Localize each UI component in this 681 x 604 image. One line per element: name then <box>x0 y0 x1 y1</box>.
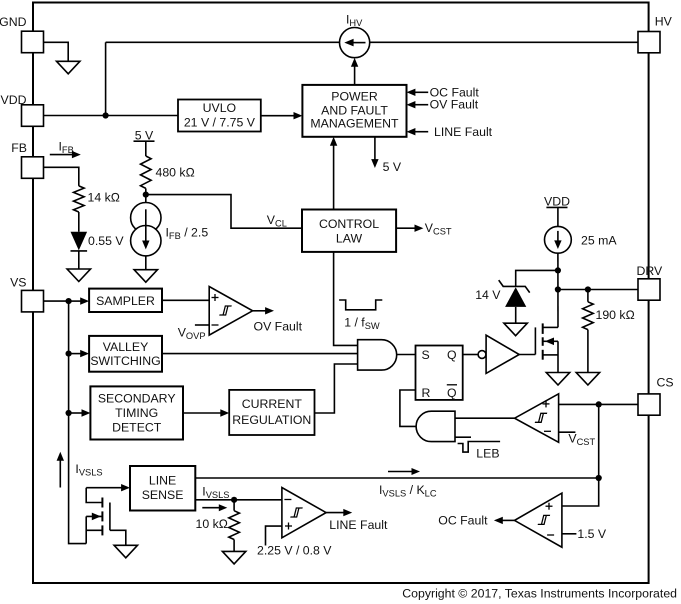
current source IHV <box>340 13 370 58</box>
ground (190k) <box>576 373 599 386</box>
resistor 190 k <box>583 290 635 330</box>
svg-text:OC Fault: OC Fault <box>438 514 488 528</box>
control law block <box>302 210 396 252</box>
current regulation block <box>229 390 314 435</box>
svg-text:LINE: LINE <box>149 474 176 488</box>
svg-text:DETECT: DETECT <box>112 420 162 434</box>
transistor Q1 driver MOSFET <box>535 323 558 372</box>
wire vertical CS to OC comparator <box>562 404 599 506</box>
svg-text:CURRENT: CURRENT <box>242 397 303 411</box>
svg-text:VS: VS <box>10 275 26 289</box>
svg-text:REGULATION: REGULATION <box>232 413 311 427</box>
wire to ground <box>145 256 147 270</box>
node FB/2.5 junction <box>143 192 149 198</box>
OC Fault input <box>407 85 480 99</box>
svg-text:CS: CS <box>657 376 674 390</box>
wire VCL to control law <box>146 195 302 229</box>
node 5 V supply <box>134 128 155 156</box>
svg-text:480 kΩ: 480 kΩ <box>156 166 196 180</box>
svg-text:SECONDARY: SECONDARY <box>98 392 176 406</box>
flip-flop latch <box>416 346 463 401</box>
wire CS comparator plus to CS pin <box>559 403 638 405</box>
svg-text:CONTROL: CONTROL <box>319 217 379 231</box>
node 190k tap <box>585 286 591 292</box>
UVLO U1 <box>178 100 261 132</box>
ground (10k) <box>222 551 245 564</box>
wire driver to gate <box>519 354 535 356</box>
svg-text:LINE Fault: LINE Fault <box>329 518 388 532</box>
wire to zener <box>516 270 558 286</box>
ground (IFB/2.5) <box>134 270 157 283</box>
wire VS pin and bus <box>44 301 87 543</box>
transistor Q2 line sense MOSFET (mirrored) <box>86 488 126 546</box>
wire VCST ref stub <box>559 432 596 448</box>
wire VOVP stub <box>178 325 210 341</box>
pin DRV <box>637 264 664 300</box>
svg-text:Q: Q <box>447 386 457 400</box>
pin FB <box>11 141 43 178</box>
svg-text:25 mA: 25 mA <box>581 234 617 248</box>
node VS-valley <box>66 351 72 357</box>
pin VS <box>10 275 43 312</box>
waveform 1/fsw <box>339 300 382 331</box>
sampler block <box>89 289 162 312</box>
op-amp OV comparator <box>209 287 252 336</box>
svg-text:10 kΩ: 10 kΩ <box>196 517 229 531</box>
pin GND <box>0 15 44 53</box>
power and fault management block <box>302 85 406 137</box>
wire CS comparator output to LEB gate <box>455 417 515 419</box>
node 10k tap <box>231 497 237 503</box>
label IVSLS sense arrow <box>57 452 103 488</box>
resistor 10 k <box>196 500 240 540</box>
resistor 14 k <box>74 186 121 212</box>
ground (driver source) <box>546 373 569 386</box>
svg-text:HV: HV <box>655 14 673 28</box>
current source 25 mA <box>545 226 618 253</box>
5 V output arrow <box>371 137 402 174</box>
pin VDD <box>1 93 44 126</box>
svg-text:VDD: VDD <box>1 93 27 107</box>
node VS-secondary <box>66 410 72 416</box>
wire into secondary timing detect <box>69 412 83 414</box>
label IVSLS small arrow <box>202 485 229 512</box>
svg-text:GND: GND <box>0 15 27 29</box>
wire UVLO to PM <box>261 115 295 117</box>
wire IVSLS/KLC line <box>195 468 598 499</box>
wire LEB gate output to R <box>400 390 416 426</box>
svg-text:5 V: 5 V <box>383 160 402 174</box>
svg-text:TIMING: TIMING <box>115 406 158 420</box>
svg-text:DRV: DRV <box>637 264 664 278</box>
svg-text:VALLEY: VALLEY <box>103 340 149 354</box>
wire AND to flip-flop <box>397 354 416 356</box>
pin CS <box>638 376 674 416</box>
wire line sense lower output <box>195 499 282 501</box>
svg-text:LINE Fault: LINE Fault <box>434 125 493 139</box>
svg-text:1.5 V: 1.5 V <box>577 527 607 541</box>
wire VDD to rail <box>44 115 178 117</box>
svg-text:190 kΩ: 190 kΩ <box>596 308 636 322</box>
wire DRV rail <box>558 289 638 291</box>
wire diode to ground <box>78 251 80 269</box>
wire PM to IHV <box>354 66 356 85</box>
op-amp OC comparator <box>515 493 562 547</box>
current source IFB/2.5 <box>131 203 209 256</box>
wire OC Fault output <box>438 514 514 528</box>
ground (zener) <box>504 323 527 336</box>
wire FB pin <box>44 167 79 186</box>
resistor 480 k <box>141 156 196 188</box>
inverter driver U3 <box>478 335 519 373</box>
wire 10k to ground <box>233 540 235 552</box>
svg-text:2.25 V / 0.8 V: 2.25 V / 0.8 V <box>257 544 332 558</box>
wire 1.5 V ref stub <box>562 527 607 541</box>
svg-text:LEB: LEB <box>476 447 499 461</box>
node VDD junction <box>103 112 109 118</box>
valley switching block <box>89 336 162 372</box>
wire sampler to OV comparator <box>162 299 209 301</box>
wire HV rail <box>106 41 340 43</box>
wire LEB input stub <box>455 436 471 438</box>
node DRV tap <box>555 286 561 292</box>
wire CL down to AND gate <box>334 252 358 346</box>
diode D1 zener 14 V <box>475 280 529 323</box>
OV Fault input <box>407 98 479 112</box>
svg-text:5 V: 5 V <box>135 128 154 142</box>
wire GND to ground <box>44 42 69 61</box>
svg-text:MANAGEMENT: MANAGEMENT <box>310 117 399 131</box>
waveform LEB pulse <box>458 442 501 461</box>
svg-text:OV Fault: OV Fault <box>430 98 479 112</box>
wire into sampler <box>69 300 81 302</box>
wire CL to PM arrow <box>333 145 335 209</box>
node IVSLS/KLC junction <box>596 475 602 481</box>
svg-text:Copyright © 2017, Texas Instru: Copyright © 2017, Texas Instruments Inco… <box>402 587 677 601</box>
ground (line sense gate) <box>114 545 137 558</box>
wire 14k to diode <box>78 212 80 232</box>
svg-text:AND FAULT: AND FAULT <box>321 103 388 117</box>
wire OV Fault output <box>253 307 303 333</box>
svg-text:SENSE: SENSE <box>142 488 184 502</box>
wire 2.25V ref <box>257 526 332 557</box>
wire MOSFET to line sense <box>86 487 122 489</box>
svg-text:UVLO: UVLO <box>203 101 237 115</box>
label IFB with arrow <box>50 140 81 159</box>
svg-text:21 V / 7.75 V: 21 V / 7.75 V <box>184 115 256 129</box>
svg-text:LAW: LAW <box>336 231 363 245</box>
svg-text:Q: Q <box>447 348 457 362</box>
svg-text:SWITCHING: SWITCHING <box>90 354 160 368</box>
wire 480k to node <box>145 188 147 202</box>
label VDD internal <box>544 194 570 226</box>
LINE Fault input <box>407 125 493 139</box>
AND gate LEB (mirrored) <box>416 411 455 441</box>
diode 0.55 V <box>71 232 125 251</box>
wire 190k to ground <box>587 330 589 373</box>
svg-text:FB: FB <box>11 141 27 155</box>
ground (0.55V diode) <box>67 269 90 282</box>
wire VCST output <box>396 221 452 237</box>
wire current regulation to AND gate <box>315 364 358 413</box>
svg-text:POWER: POWER <box>331 90 378 104</box>
svg-text:14 V: 14 V <box>475 288 501 302</box>
wire Q to inverter bubble <box>463 354 478 356</box>
pin HV <box>638 14 673 52</box>
wire LINE Fault output <box>326 509 388 532</box>
node CS junction <box>596 401 602 407</box>
wire valley to AND gate <box>162 353 358 355</box>
op-amp LINE comparator <box>282 488 326 538</box>
secondary timing detect block <box>90 386 183 439</box>
line sense block <box>130 466 195 511</box>
svg-text:14 kΩ: 14 kΩ <box>88 191 121 205</box>
node VS-sampler <box>66 298 72 304</box>
svg-text:SAMPLER: SAMPLER <box>96 294 155 308</box>
svg-text:VDD: VDD <box>544 194 570 208</box>
wire 25mA down to drain <box>557 253 559 327</box>
svg-text:R: R <box>422 386 431 400</box>
AND gate U2 <box>358 340 397 370</box>
wire secondary to current regulation <box>183 412 221 414</box>
op-amp CS comparator <box>515 394 559 443</box>
svg-text:0.55 V: 0.55 V <box>88 234 124 248</box>
node zener tap <box>555 267 561 273</box>
svg-text:OV Fault: OV Fault <box>254 320 303 334</box>
ground (GND pin) <box>57 61 80 74</box>
svg-text:S: S <box>422 348 430 362</box>
wire into valley switching <box>69 353 81 355</box>
